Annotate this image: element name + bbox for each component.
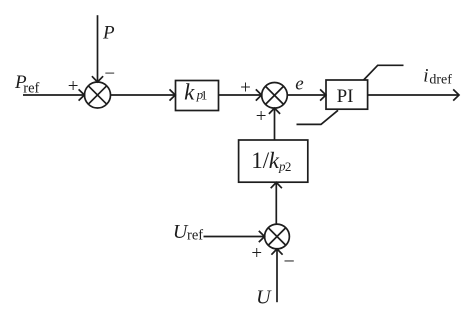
svg-text:−: − xyxy=(104,63,115,84)
svg-text:U: U xyxy=(256,287,272,309)
svg-text:dref: dref xyxy=(429,73,452,88)
svg-text:+: + xyxy=(251,243,262,264)
svg-text:i: i xyxy=(423,65,428,86)
svg-text:e: e xyxy=(295,73,303,94)
svg-text:+: + xyxy=(68,76,79,97)
label P_ref xyxy=(14,72,40,96)
upper limit symbol of PI xyxy=(364,65,404,80)
label i_dref xyxy=(423,65,452,87)
svg-text:+: + xyxy=(256,106,267,127)
wire P_ref to sum S1 xyxy=(23,94,84,96)
summing junction S2 xyxy=(262,83,288,109)
svg-text:2: 2 xyxy=(285,159,292,174)
block 1/kp2 xyxy=(239,140,308,182)
wire P into sum S1 xyxy=(97,15,99,82)
wire 1/kp2 to sum S2 xyxy=(274,108,276,140)
svg-text:1: 1 xyxy=(201,88,208,103)
summing junction S3 xyxy=(265,224,290,249)
svg-text:ref: ref xyxy=(187,228,203,244)
svg-text:−: − xyxy=(284,250,295,272)
wire S2 to PI xyxy=(287,94,326,96)
block kp1 xyxy=(176,81,219,111)
wire U into sum S3 xyxy=(276,249,278,302)
svg-text:ref: ref xyxy=(23,80,39,96)
wire S1 to kp1 xyxy=(111,94,176,96)
svg-text:k: k xyxy=(184,80,195,105)
block PI xyxy=(326,80,368,109)
svg-text:P: P xyxy=(102,22,115,43)
svg-text:1/: 1/ xyxy=(251,148,270,173)
wire kp1 to sum S2 xyxy=(219,94,262,96)
wire sum S3 to 1/kp2 xyxy=(275,182,277,224)
lower limit symbol of PI xyxy=(297,110,339,124)
svg-text:+: + xyxy=(240,77,251,98)
wire PI to output i_dref xyxy=(368,94,459,96)
label U_ref xyxy=(173,221,203,243)
svg-text:PI: PI xyxy=(337,86,354,107)
summing junction S1 xyxy=(85,82,111,108)
wire U_ref to sum S3 xyxy=(204,236,265,238)
